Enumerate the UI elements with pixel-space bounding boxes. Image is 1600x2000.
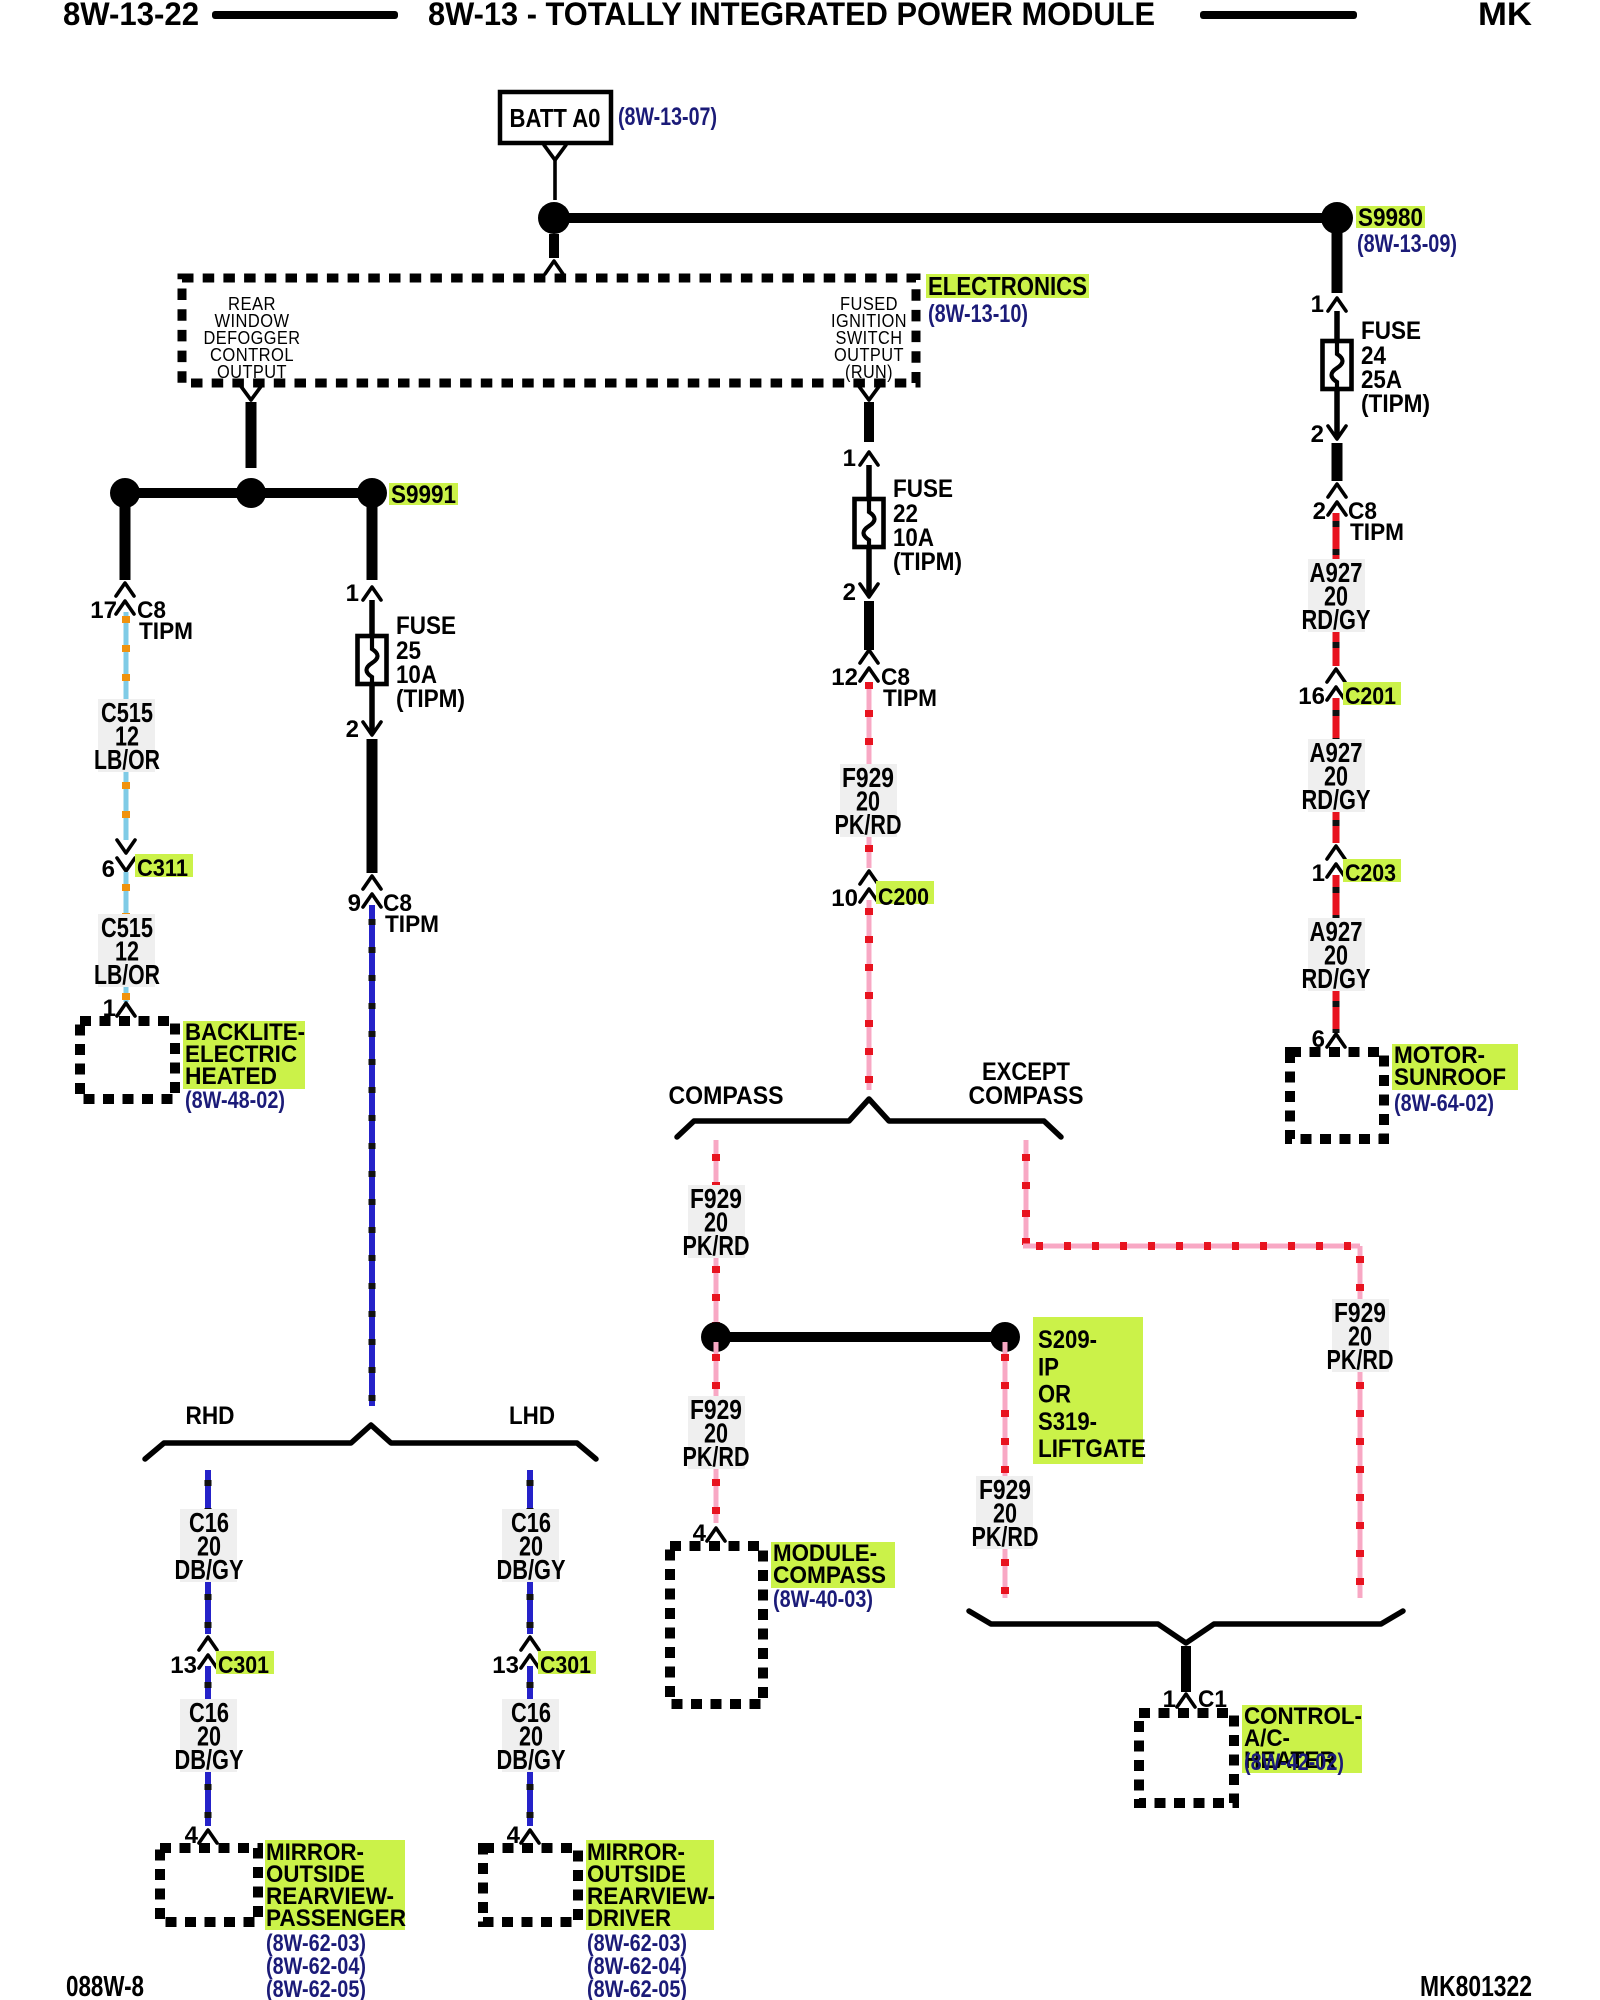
svg-text:(8W-62-05): (8W-62-05) bbox=[266, 1976, 366, 2000]
wire into fuse 24 bbox=[1334, 311, 1340, 341]
wire to backlite bbox=[124, 987, 129, 1002]
component box MODULE-COMPASS (dashed) bbox=[670, 1546, 763, 1704]
node label MODULE-COMPASS bbox=[771, 1542, 895, 1588]
svg-text:PK/RD: PK/RD bbox=[835, 809, 902, 840]
svg-text:SUNROOF: SUNROOF bbox=[1394, 1064, 1506, 1091]
wire F929 to splice S209 bbox=[714, 1258, 719, 1332]
wire C16 RHD lower bbox=[205, 1666, 211, 1706]
connector chevron at mirror RHD bbox=[199, 1830, 217, 1843]
svg-text:LB/OR: LB/OR bbox=[94, 959, 160, 990]
splice S209 bus bbox=[716, 1332, 1005, 1342]
svg-text:RHD: RHD bbox=[186, 1402, 235, 1430]
svg-text:(TIPM): (TIPM) bbox=[893, 548, 962, 576]
wire F929 below S209 right leg bbox=[1003, 1342, 1008, 1478]
wire label C515 12 LB/OR (upper) bbox=[98, 699, 155, 772]
svg-text:PK/RD: PK/RD bbox=[1327, 1344, 1394, 1375]
svg-text:13: 13 bbox=[170, 1652, 197, 1679]
connector C201 chevrons bbox=[1327, 669, 1345, 682]
svg-text:2: 2 bbox=[346, 716, 359, 743]
wire F929 except-compass horizontal bbox=[1023, 1244, 1360, 1249]
connector chevron at backlite bbox=[117, 1003, 135, 1016]
connector name C301 (RHD) bbox=[216, 1651, 274, 1674]
connector chevron at top of ELECTRONICS box bbox=[545, 261, 563, 274]
svg-text:6: 6 bbox=[102, 856, 115, 883]
node label BACKLITE-ELECTRIC HEATED bbox=[183, 1021, 305, 1089]
wire F929 below S209 bbox=[714, 1342, 719, 1398]
svg-text:2: 2 bbox=[1313, 498, 1326, 525]
wire F929 S209 leg to merge bbox=[1003, 1549, 1008, 1598]
connector name C200 bbox=[876, 881, 934, 904]
wire label F929 20 PK/RD (to compass module) bbox=[688, 1396, 745, 1469]
svg-text:COMPASS: COMPASS bbox=[969, 1082, 1084, 1110]
svg-text:(TIPM): (TIPM) bbox=[396, 685, 465, 713]
wire C16 RHD middle bbox=[205, 1582, 211, 1634]
svg-text:DB/GY: DB/GY bbox=[497, 1554, 566, 1585]
wire label F929 20 PK/RD (upper) bbox=[840, 764, 897, 837]
svg-text:2: 2 bbox=[1311, 421, 1324, 448]
component box MOTOR-SUNROOF (dashed) bbox=[1290, 1052, 1384, 1139]
svg-text:DB/GY: DB/GY bbox=[175, 1554, 244, 1585]
svg-text:2: 2 bbox=[843, 579, 856, 606]
svg-text:(8W-64-02): (8W-64-02) bbox=[1394, 1090, 1494, 1117]
svg-text:OUTPUT: OUTPUT bbox=[217, 361, 287, 382]
svg-text:RD/GY: RD/GY bbox=[1302, 963, 1371, 994]
split brace COMPASS / EXCEPT COMPASS bbox=[677, 1099, 1061, 1137]
connector name C301 (LHD) bbox=[538, 1651, 596, 1674]
junction dot S9991 left bbox=[110, 478, 140, 508]
wire fuse 22 to C8 pin 12 bbox=[864, 601, 874, 650]
wire S9980 down to fuse 24 bbox=[1332, 232, 1343, 293]
wire label F929 20 PK/RD (compass) bbox=[688, 1185, 745, 1258]
junction dot S209 left bbox=[701, 1322, 731, 1352]
svg-text:TIPM: TIPM bbox=[385, 911, 439, 938]
svg-text:1: 1 bbox=[346, 580, 359, 607]
wire ignition output down bbox=[864, 402, 874, 442]
connector name C201 bbox=[1343, 682, 1401, 705]
svg-text:C311: C311 bbox=[137, 855, 188, 882]
svg-text:HEATED: HEATED bbox=[185, 1063, 277, 1090]
dashed box ELECTRONICS (TIPM internal) bbox=[182, 278, 916, 383]
wire A927 continues 2 bbox=[1333, 812, 1340, 843]
wire into fuse 22 bbox=[866, 465, 872, 499]
wire F929 compass branch bbox=[714, 1140, 719, 1187]
svg-text:COMPASS: COMPASS bbox=[773, 1562, 886, 1589]
wire fuse 24 to C8 pin 2 bbox=[1332, 443, 1343, 481]
svg-text:9: 9 bbox=[348, 890, 361, 917]
wire A927 red/gray upper bbox=[1333, 513, 1340, 561]
svg-text:1: 1 bbox=[843, 445, 856, 472]
svg-text:C203: C203 bbox=[1345, 860, 1396, 887]
svg-text:12: 12 bbox=[831, 664, 858, 691]
svg-text:1: 1 bbox=[1312, 860, 1325, 887]
wire C16 RHD upper bbox=[205, 1470, 211, 1511]
connector C203 chevrons bbox=[1327, 846, 1345, 859]
connector C301 chevrons (LHD) bbox=[521, 1637, 539, 1650]
merge brace to C1 bbox=[969, 1611, 1403, 1643]
connector chevron at sunroof bbox=[1327, 1034, 1345, 1047]
svg-text:S209-: S209- bbox=[1038, 1326, 1097, 1354]
wire A927 red/gray lower bbox=[1333, 875, 1340, 920]
wire out of fuse 22 bbox=[866, 547, 872, 596]
wire F929 except-compass vertical bbox=[1024, 1140, 1029, 1248]
wire out of fuse 24 bbox=[1334, 389, 1340, 438]
wire defogger output down to splice S9991 bbox=[246, 402, 257, 468]
svg-text:RD/GY: RD/GY bbox=[1302, 784, 1371, 815]
wire A927 red/gray middle bbox=[1333, 698, 1340, 741]
junction dot S9991 center bbox=[236, 478, 266, 508]
svg-text:(8W-48-02): (8W-48-02) bbox=[185, 1087, 285, 1114]
wire into fuse 25 bbox=[369, 600, 375, 636]
svg-text:PK/RD: PK/RD bbox=[972, 1521, 1039, 1552]
component box BATT A0 bbox=[500, 92, 611, 143]
svg-text:17: 17 bbox=[90, 597, 117, 624]
wire C16 LHD upper bbox=[527, 1470, 533, 1511]
svg-text:LIFTGATE: LIFTGATE bbox=[1038, 1435, 1146, 1463]
junction dot S9991 right bbox=[357, 478, 387, 508]
wire label A927 20 RD/GY (lower) bbox=[1308, 918, 1365, 991]
splice S9991 bus bbox=[125, 488, 372, 498]
wire S9991 down to C8 pin 17 bbox=[120, 493, 131, 580]
splice S9980 junction dot bbox=[1321, 202, 1353, 234]
chevron out of fuse 24 bbox=[1328, 426, 1346, 439]
wire C515 light blue / orange (lower) bbox=[124, 872, 129, 916]
svg-text:C301: C301 bbox=[218, 1652, 269, 1679]
wire label C16 20 DB/GY (LHD lower) bbox=[502, 1699, 559, 1772]
wire label C515 12 LB/OR (lower) bbox=[98, 914, 155, 987]
svg-text:ELECTRONICS: ELECTRONICS bbox=[928, 271, 1087, 301]
svg-text:(RUN): (RUN) bbox=[845, 361, 893, 382]
svg-text:BATT A0: BATT A0 bbox=[510, 103, 601, 133]
node label ELECTRONICS bbox=[926, 274, 1089, 298]
svg-text:C201: C201 bbox=[1345, 683, 1396, 710]
svg-text:TIPM: TIPM bbox=[139, 618, 193, 645]
connector C8 pin 9 chevrons bbox=[363, 876, 381, 889]
svg-text:OR: OR bbox=[1038, 1381, 1071, 1409]
wire label C16 20 DB/GY (RHD lower) bbox=[180, 1699, 237, 1772]
svg-text:LHD: LHD bbox=[509, 1402, 555, 1430]
wire fuse 25 to C8 pin 9 bbox=[367, 739, 378, 873]
split brace RHD/LHD bbox=[145, 1425, 596, 1459]
wire F929 pink/red upper bbox=[867, 682, 872, 766]
connector chevron at C1 bbox=[1177, 1694, 1195, 1707]
header rule right bbox=[1200, 11, 1357, 19]
splice label S9980 bbox=[1356, 206, 1425, 228]
wire S9991 down to fuse 25 bbox=[367, 493, 378, 580]
svg-text:MK801322: MK801322 bbox=[1420, 1971, 1532, 2000]
chevron into fuse 24 bbox=[1328, 298, 1346, 311]
header rule left bbox=[212, 11, 398, 19]
wire label A927 20 RD/GY (middle) bbox=[1308, 739, 1365, 812]
svg-text:IP: IP bbox=[1038, 1353, 1059, 1381]
wire A927 continues 1 bbox=[1333, 632, 1340, 666]
svg-text:FUSE: FUSE bbox=[1361, 317, 1421, 345]
wire stub from bus into ELECTRONICS box bbox=[549, 234, 559, 258]
wire into mirror RHD bbox=[205, 1772, 211, 1826]
svg-text:S319-: S319- bbox=[1038, 1408, 1097, 1436]
wire F929 except-compass down bbox=[1358, 1246, 1363, 1301]
wire label F929 20 PK/RD (S209 leg) bbox=[976, 1476, 1033, 1549]
wire label C16 20 DB/GY (LHD upper) bbox=[502, 1509, 559, 1582]
node label CONTROL-A/C-HEATER bbox=[1242, 1705, 1362, 1773]
svg-text:TIPM: TIPM bbox=[1350, 519, 1404, 546]
connector name C203 bbox=[1343, 859, 1401, 882]
svg-text:S9980: S9980 bbox=[1358, 204, 1423, 232]
junction dot left of bus bbox=[538, 202, 570, 234]
svg-text:DRIVER: DRIVER bbox=[587, 1905, 671, 1932]
svg-text:PK/RD: PK/RD bbox=[683, 1441, 750, 1472]
splice label S9991 bbox=[389, 483, 458, 505]
junction dot S209 right bbox=[990, 1322, 1020, 1352]
svg-text:LB/OR: LB/OR bbox=[94, 744, 160, 775]
chevron into fuse 22 bbox=[860, 452, 878, 465]
chevron into fuse 25 bbox=[363, 587, 381, 600]
component box MIRROR-OUTSIDE REARVIEW-DRIVER (dashed) bbox=[483, 1848, 578, 1922]
svg-text:MK: MK bbox=[1478, 0, 1532, 32]
svg-text:(8W-13-07): (8W-13-07) bbox=[618, 103, 717, 131]
chevron out of fuse 25 bbox=[363, 722, 381, 735]
component box CONTROL-A/C-HEATER (dashed) bbox=[1139, 1713, 1234, 1803]
component box BACKLITE-ELECTRIC HEATED (dashed) bbox=[80, 1021, 175, 1099]
splice label S209-IP OR S319-LIFTGATE bbox=[1033, 1317, 1143, 1464]
component box MIRROR-OUTSIDE REARVIEW-PASSENGER (dashed) bbox=[160, 1848, 258, 1922]
connector C8 TIPM pin 17 chevrons bbox=[116, 583, 134, 596]
svg-text:DB/GY: DB/GY bbox=[497, 1744, 566, 1775]
svg-text:088W-8: 088W-8 bbox=[66, 1971, 144, 2000]
svg-text:RD/GY: RD/GY bbox=[1302, 604, 1371, 635]
wire C515 light blue / orange (upper) bbox=[124, 612, 129, 700]
wire C16 LHD middle bbox=[527, 1582, 533, 1634]
svg-text:13: 13 bbox=[492, 1652, 519, 1679]
wire into mirror LHD bbox=[527, 1772, 533, 1826]
connector C200 chevrons bbox=[860, 871, 878, 884]
svg-text:COMPASS: COMPASS bbox=[669, 1082, 784, 1110]
svg-text:(8W-13-10): (8W-13-10) bbox=[928, 300, 1028, 328]
svg-text:FUSE: FUSE bbox=[396, 612, 456, 640]
svg-text:FUSE: FUSE bbox=[893, 475, 953, 503]
svg-text:10: 10 bbox=[831, 885, 858, 912]
wire F929 to compass split bbox=[867, 900, 872, 1090]
connector symbol below fused ignition output bbox=[858, 385, 880, 400]
wire BATT A0 to splice S9980 bus bbox=[553, 160, 557, 200]
wire stub to C1 bbox=[1181, 1646, 1191, 1692]
node label MIRROR-OUTSIDE REARVIEW-PASSENGER bbox=[265, 1840, 405, 1930]
wire C515 continues bbox=[124, 772, 129, 840]
wire label F929 20 PK/RD (except compass) bbox=[1332, 1299, 1389, 1372]
svg-text:(8W-42-02): (8W-42-02) bbox=[1244, 1749, 1344, 1776]
svg-text:TIPM: TIPM bbox=[883, 685, 937, 712]
connector symbol below BATT A0 bbox=[544, 145, 566, 160]
connector symbol below defogger output bbox=[240, 385, 262, 400]
svg-text:S9991: S9991 bbox=[391, 481, 456, 509]
wire C16 dark blue / gray to RHD-LHD split bbox=[369, 905, 375, 1406]
fuse 22 symbol bbox=[855, 499, 884, 547]
connector C311 chevrons (down) bbox=[117, 840, 135, 853]
connector C8 pin 2 chevrons bbox=[1328, 484, 1346, 497]
svg-text:(TIPM): (TIPM) bbox=[1361, 390, 1430, 418]
wire F929 except-compass to merge bbox=[1358, 1372, 1363, 1598]
fuse 24 symbol bbox=[1323, 341, 1352, 389]
svg-text:PASSENGER: PASSENGER bbox=[266, 1905, 406, 1932]
connector C8 pin 12 chevrons bbox=[860, 650, 878, 663]
node label MIRROR-OUTSIDE REARVIEW-DRIVER bbox=[586, 1840, 714, 1930]
svg-text:(8W-13-09): (8W-13-09) bbox=[1357, 230, 1457, 258]
svg-text:8W-13-22: 8W-13-22 bbox=[63, 0, 199, 32]
wire F929 continues bbox=[867, 837, 872, 868]
svg-text:PK/RD: PK/RD bbox=[683, 1230, 750, 1261]
chevron out of fuse 22 bbox=[860, 584, 878, 597]
connector chevron at mirror LHD bbox=[521, 1830, 539, 1843]
connector C301 chevrons (RHD) bbox=[199, 1637, 217, 1650]
wire out of fuse 25 bbox=[369, 684, 375, 734]
wire label A927 20 RD/GY (upper) bbox=[1308, 559, 1365, 632]
svg-text:16: 16 bbox=[1298, 683, 1325, 710]
connector name C311 bbox=[135, 854, 193, 877]
wire A927 into sunroof motor bbox=[1333, 991, 1340, 1033]
wire label C16 20 DB/GY (RHD upper) bbox=[180, 1509, 237, 1582]
connector chevron at module-compass bbox=[707, 1528, 725, 1541]
bus wire to S9980 bbox=[554, 213, 1337, 223]
svg-text:1: 1 bbox=[1311, 291, 1324, 318]
svg-text:(8W-62-05): (8W-62-05) bbox=[587, 1976, 687, 2000]
svg-text:8W-13 - TOTALLY INTEGRATED POW: 8W-13 - TOTALLY INTEGRATED POWER MODULE bbox=[428, 0, 1155, 32]
svg-text:C200: C200 bbox=[878, 884, 929, 911]
node label MOTOR-SUNROOF bbox=[1392, 1044, 1518, 1090]
wire F929 into module-compass bbox=[714, 1469, 719, 1523]
fuse 25 symbol bbox=[358, 636, 387, 684]
svg-text:DB/GY: DB/GY bbox=[175, 1744, 244, 1775]
svg-text:(8W-40-03): (8W-40-03) bbox=[773, 1586, 873, 1613]
svg-text:C301: C301 bbox=[540, 1652, 591, 1679]
wire C16 LHD lower bbox=[527, 1666, 533, 1706]
